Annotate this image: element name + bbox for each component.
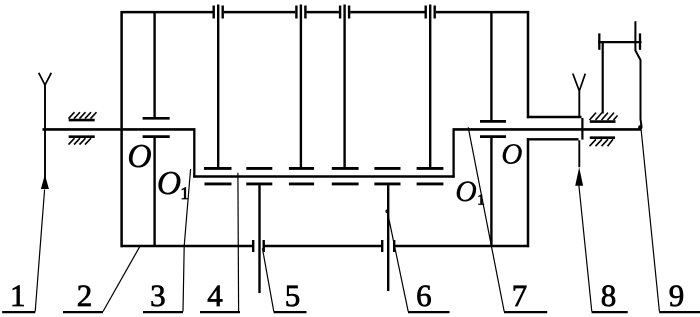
leader 7 [468,127,504,311]
leader 5 [262,248,273,311]
right fixed support upper hatching [590,113,618,120]
output sleeve top line [527,116,582,118]
label 6 underline [408,311,450,313]
bearing ticks at top edge, shaft II [296,6,305,19]
countershaft centerline O1 [193,175,455,178]
svg-text:O: O [127,138,151,175]
gear G1 bar [204,167,232,170]
left inner bearing top bar [143,117,170,120]
gear D1 bar [246,182,272,185]
bearing ticks at bottom edge, lower shaft 6 [382,240,394,252]
housing right wall lower segment [527,138,530,247]
link: input shaft down to countershaft [193,129,195,178]
gear G4 bar [417,167,444,170]
leader 2 [103,246,140,312]
left inner gear shaft (lower segment) [153,138,155,245]
junction dot at output shaft end [638,125,642,129]
output sleeve bottom line [527,138,579,140]
gear G1 mating dash [205,182,232,185]
svg-text:9: 9 [669,278,685,313]
input shaft 1 [43,128,196,131]
gear D1 upper dash [246,167,272,170]
svg-text:3: 3 [150,278,166,313]
output shaft 7 [453,128,642,131]
gear G4 shaft stem [429,5,431,168]
gear G2 bar [289,167,314,170]
svg-text:8: 8 [601,278,617,313]
right fixed support upper baseline [590,120,616,123]
V-belt symbol Y arms (output) [573,74,586,91]
link: countershaft up to output shaft [452,129,454,178]
gear D2 upper dash [374,167,400,170]
input belt pulley line [44,85,46,178]
leader 1 [35,190,44,312]
label 1 underline [2,311,35,313]
housing bottom edge (with bearing gaps) [121,245,530,248]
output pulley line upper segment [578,91,580,117]
svg-text:1: 1 [10,278,26,313]
bearing ticks at top edge, shaft I [214,6,223,19]
right inner gear shaft (upper segment) [490,13,492,120]
left fixed support lower baseline [69,135,95,138]
gear G1 shaft stem [217,5,219,168]
output pulley line lower segment [578,140,580,167]
svg-text:O: O [455,176,476,208]
lever right link to output shaft end [635,21,641,127]
gear G3 mating dash [332,182,359,185]
right fixed support lower baseline [590,136,615,139]
housing top edge (with bearing gaps) [121,11,530,14]
svg-text:4: 4 [207,278,223,313]
left fixed support lower hatching [69,138,92,144]
right inner bearing bottom bar [480,135,506,138]
label 2 underline [63,311,103,313]
leader 8 arrowhead [575,167,583,186]
leader 9 [641,128,659,311]
gear G2 shaft stem [300,5,302,168]
output sleeve right step [581,118,583,140]
right fixed support lower hatching [590,139,614,146]
gear G4 mating dash [417,182,444,185]
gear D2 bar [374,182,400,185]
leader 3 [183,169,191,312]
label 5 underline [274,311,307,313]
leader 4 [237,173,240,312]
bearing ticks at bottom edge, lower shaft 5 [253,240,264,252]
left fixed support upper hatching [69,112,97,118]
label 8 underline [592,311,628,313]
lower shaft 6 stem [387,185,389,291]
svg-text:O: O [157,165,181,202]
label 4 underline [200,311,240,313]
lever left leg [602,43,604,114]
left inner bearing bottom bar [143,135,170,138]
bearing ticks at top edge, shaft III [340,6,349,19]
leader 8 [579,186,592,312]
junction dot leader 6 [385,209,389,213]
housing right wall upper segment [527,11,530,118]
gear G3 shaft stem [343,5,345,168]
lever arm left end tick [598,33,600,49]
right inner gear shaft (lower segment) [490,138,492,245]
svg-text:5: 5 [285,278,301,313]
leader 1 arrowhead [41,175,49,190]
label 9 underline [659,311,700,313]
left inner gear shaft (upper segment) [153,13,155,117]
gear G2 mating dash [289,182,314,185]
bearing ticks at top edge, shaft IV [426,6,435,19]
svg-text:2: 2 [77,278,93,313]
svg-text:O: O [501,139,522,171]
lever arm right end tick [639,33,641,49]
gear G3 bar [332,167,359,170]
load lever arm [598,41,642,43]
housing left wall (box 2) [120,11,123,247]
V-belt symbol Y arms (input) [39,73,52,85]
lower shaft 5 stem [258,185,260,293]
label 7 underline [504,311,547,313]
svg-text:7: 7 [512,278,528,313]
right inner bearing top bar [480,120,506,123]
svg-text:6: 6 [416,278,432,313]
label 3 underline [143,311,183,313]
leader 6 [387,211,408,311]
left fixed support upper baseline [69,119,95,122]
